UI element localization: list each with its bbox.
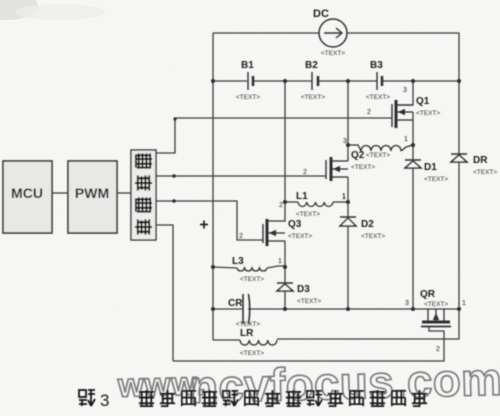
- diode DR: [451, 154, 467, 162]
- junction Q1 gate wire corner: [173, 117, 176, 120]
- wire D3 branch: [284, 267, 286, 283]
- node 2 Q3 drain / L1 left: [283, 200, 287, 204]
- node 3 ground rail D1/QR: [411, 307, 415, 311]
- junction battery rail left: [211, 79, 215, 83]
- wire logic out4 down left: [156, 225, 173, 361]
- wire left rail: [212, 33, 214, 340]
- wire ground rail CR row: [213, 308, 242, 310]
- inductor L3: [237, 268, 267, 271]
- junction ground rail left: [211, 307, 215, 311]
- wire bottom rail: [173, 327, 444, 361]
- wire Q2 drain up: [347, 145, 349, 161]
- wire logic out1 to Q1 gate: [156, 118, 392, 153]
- wire Q3 source down: [284, 241, 286, 267]
- wire battery rail segments: [213, 80, 247, 82]
- DC current source: [313, 8, 347, 57]
- junction logic out2: [172, 174, 176, 178]
- wire MCU-PWM: [52, 192, 68, 194]
- wire D1 branch: [412, 145, 414, 160]
- plus polarity mark: [200, 221, 208, 229]
- junction battery rail right: [457, 79, 461, 83]
- battery B3: [377, 72, 382, 90]
- junction L3 left on left rail: [211, 265, 215, 269]
- junction ground rail D3: [283, 307, 287, 311]
- battery B1: [248, 72, 253, 90]
- inductor L2 (by Q1/Q2): [348, 145, 413, 151]
- junction logic out3: [172, 199, 176, 203]
- junction ground rail D2: [346, 307, 350, 311]
- node 3 Q2 drain / L2 left: [346, 143, 350, 147]
- wire right rail lower: [277, 161, 459, 339]
- logic control box (vertical Chinese text): [131, 150, 156, 240]
- PWM box: [68, 161, 117, 233]
- wire logic out2 to Q2 gate: [156, 175, 326, 177]
- wire right rail upper: [458, 81, 460, 154]
- diode D2: [340, 217, 356, 226]
- transistor Q3: [263, 219, 285, 246]
- watermark www.ncvfocus.com: [116, 353, 500, 415]
- transistor Q1: [392, 100, 413, 128]
- transistor QR (rotated): [421, 309, 451, 327]
- wire tap B2-B3 down: [347, 81, 349, 145]
- junction battery rail B2-B3 tap: [346, 79, 350, 83]
- battery B2: [312, 72, 318, 90]
- diode D3: [277, 283, 293, 291]
- inductor LR: [240, 340, 277, 345]
- wire logic out3 to Q3 gate: [156, 201, 263, 240]
- node 1 Q2 source / L1 right / D2: [346, 200, 350, 204]
- caption 图3 串联电池组电感式均衡控制电路: [79, 390, 427, 410]
- transistor Q2: [326, 157, 348, 181]
- wire Q3 drain up: [284, 202, 285, 221]
- node 1 ground rail right/QR: [457, 307, 461, 311]
- inductor L1: [298, 202, 333, 206]
- junction battery rail B1-B2 tap: [283, 79, 287, 83]
- wire Q1 source down: [412, 112, 414, 145]
- wire tap B1-B2 down: [284, 81, 286, 202]
- wire top rail left: [213, 32, 319, 34]
- node 1 Q3 source / L3 right / D3: [283, 265, 287, 269]
- wire L3 row right: [267, 266, 285, 268]
- wire Q1 drain up: [396, 81, 413, 105]
- wire D2 branch: [347, 202, 349, 217]
- node 1 Q1 source / L2 right / D1: [411, 143, 415, 147]
- wire L3 row left: [213, 267, 237, 268]
- wire top rail right: [347, 33, 459, 81]
- MCU box: [3, 161, 52, 233]
- wire L1 row: [285, 201, 298, 203]
- wire Q2 source down: [347, 177, 349, 202]
- diode D1: [405, 160, 421, 168]
- wire LR feed: [213, 339, 240, 341]
- capacitor CR: [243, 294, 250, 324]
- wire PWM-logic: [117, 192, 131, 194]
- junction battery rail Q1 drain tap: [411, 79, 415, 83]
